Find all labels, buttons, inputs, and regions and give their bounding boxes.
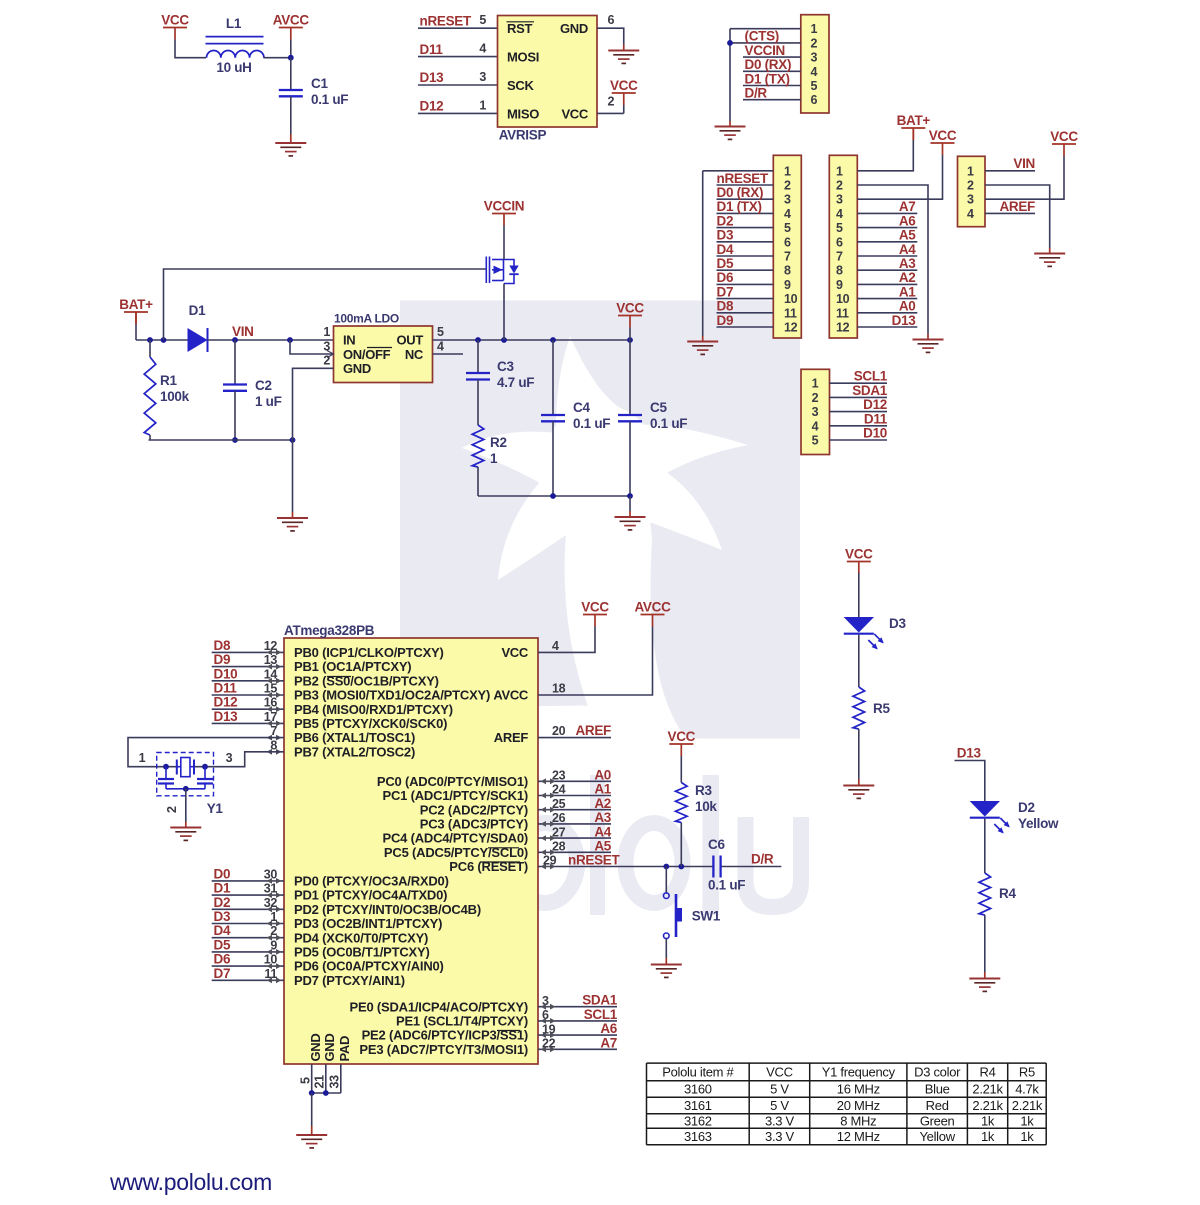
svg-text:VCC: VCC [610, 78, 638, 93]
svg-text:D1: D1 [189, 303, 206, 318]
svg-text:25: 25 [552, 797, 566, 811]
svg-text:PE1 (SCL1/T4/PTCXY): PE1 (SCL1/T4/PTCXY) [396, 1014, 528, 1029]
svg-text:3163: 3163 [684, 1129, 712, 1144]
svg-text:D12: D12 [420, 99, 444, 114]
svg-text:D2: D2 [214, 895, 231, 910]
svg-text:5: 5 [437, 325, 444, 339]
svg-text:Green: Green [920, 1114, 955, 1129]
svg-text:PC2 (ADC2/PTCY): PC2 (ADC2/PTCY) [420, 802, 528, 817]
svg-text:1: 1 [967, 164, 974, 178]
svg-text:PC3 (ADC3/PTCY): PC3 (ADC3/PTCY) [420, 817, 528, 832]
svg-text:VCC: VCC [581, 599, 609, 614]
svg-text:3.3 V: 3.3 V [765, 1129, 794, 1144]
svg-text:4: 4 [784, 207, 791, 221]
svg-text:D13: D13 [957, 746, 982, 761]
svg-text:D0 (RX): D0 (RX) [717, 185, 764, 200]
svg-text:A1: A1 [594, 782, 611, 797]
svg-text:PAD: PAD [337, 1036, 352, 1062]
svg-text:2: 2 [836, 179, 843, 193]
svg-text:C2: C2 [255, 378, 272, 393]
svg-text:PB0 (ICP1/CLKO/PTCXY): PB0 (ICP1/CLKO/PTCXY) [294, 645, 444, 660]
svg-text:11: 11 [836, 306, 849, 320]
svg-text:Y1 frequency: Y1 frequency [822, 1064, 896, 1079]
svg-text:5: 5 [836, 221, 843, 235]
svg-text:nRESET: nRESET [420, 13, 473, 28]
svg-text:D/R: D/R [751, 852, 774, 867]
svg-text:29: 29 [543, 854, 557, 868]
svg-text:4: 4 [437, 339, 444, 353]
svg-text:4: 4 [479, 42, 486, 56]
svg-text:4.7k: 4.7k [1015, 1081, 1039, 1096]
svg-text:8: 8 [784, 264, 791, 278]
svg-text:GND: GND [343, 361, 371, 376]
svg-text:SCK: SCK [507, 78, 534, 93]
svg-text:5: 5 [812, 434, 819, 448]
svg-text:D4: D4 [717, 242, 734, 257]
svg-text:PD2 (PTCXY/INT0/OC3B/OC4B): PD2 (PTCXY/INT0/OC3B/OC4B) [294, 902, 481, 917]
svg-text:R1: R1 [160, 373, 177, 388]
svg-text:(CTS): (CTS) [745, 29, 780, 44]
svg-text:D1 (TX): D1 (TX) [717, 199, 762, 214]
svg-text:D10: D10 [214, 666, 238, 681]
svg-text:D11: D11 [214, 681, 238, 696]
svg-text:RST: RST [507, 21, 532, 36]
svg-text:PD3 (OC2B/INT1/PTCXY): PD3 (OC2B/INT1/PTCXY) [294, 916, 442, 931]
svg-text:3160: 3160 [684, 1081, 712, 1096]
svg-text:A0: A0 [594, 768, 611, 783]
svg-text:VCC: VCC [929, 128, 957, 143]
svg-text:www.pololu.com: www.pololu.com [109, 1169, 272, 1195]
svg-text:VCC: VCC [161, 12, 189, 27]
svg-text:0.1 uF: 0.1 uF [573, 416, 610, 431]
svg-text:5: 5 [479, 13, 486, 27]
svg-text:Pololu item #: Pololu item # [662, 1064, 734, 1079]
svg-text:5: 5 [299, 1077, 313, 1084]
svg-text:Y1: Y1 [207, 801, 224, 816]
svg-text:SCL1: SCL1 [584, 1007, 618, 1022]
svg-text:PB1 (OC1A/PTCXY): PB1 (OC1A/PTCXY) [294, 659, 411, 674]
svg-text:PE3 (ADC7/PTCY/T3/MOSI1): PE3 (ADC7/PTCY/T3/MOSI1) [359, 1042, 528, 1057]
svg-text:28: 28 [552, 840, 566, 854]
svg-text:R2: R2 [490, 435, 507, 450]
svg-text:PC6 (RESET): PC6 (RESET) [449, 859, 528, 874]
svg-text:1: 1 [836, 164, 843, 178]
svg-text:A3: A3 [899, 256, 916, 271]
svg-text:27: 27 [552, 825, 566, 839]
svg-text:3: 3 [812, 405, 819, 419]
svg-text:C5: C5 [650, 400, 667, 415]
svg-text:D1 (TX): D1 (TX) [745, 71, 790, 86]
svg-text:Blue: Blue [925, 1081, 950, 1096]
svg-text:PC1 (ADC1/PTCY/SCK1): PC1 (ADC1/PTCY/SCK1) [382, 788, 528, 803]
svg-text:MISO: MISO [507, 106, 539, 121]
svg-text:16 MHz: 16 MHz [837, 1081, 880, 1096]
svg-text:MOSI: MOSI [507, 50, 539, 65]
svg-text:3162: 3162 [684, 1114, 712, 1129]
svg-text:3: 3 [836, 193, 843, 207]
svg-text:8 MHz: 8 MHz [840, 1114, 876, 1129]
svg-text:1: 1 [139, 751, 146, 765]
svg-text:VCC: VCC [561, 106, 588, 121]
svg-text:PB5 (PTCXY/XCK0/SCK0): PB5 (PTCXY/XCK0/SCK0) [294, 716, 447, 731]
svg-text:1: 1 [490, 451, 498, 466]
svg-text:D3 color: D3 color [914, 1064, 961, 1079]
svg-text:PC4 (ADC4/PTCY/SDA0): PC4 (ADC4/PTCY/SDA0) [382, 831, 528, 846]
svg-text:6: 6 [608, 13, 615, 27]
svg-text:D1: D1 [214, 881, 231, 896]
svg-text:D3: D3 [889, 616, 906, 631]
svg-text:11: 11 [784, 306, 797, 320]
svg-text:AVCC: AVCC [493, 688, 529, 703]
svg-text:2: 2 [812, 391, 819, 405]
svg-text:D2: D2 [1018, 800, 1035, 815]
svg-text:nRESET: nRESET [717, 171, 770, 186]
svg-text:VIN: VIN [1013, 156, 1035, 171]
svg-text:0.1 uF: 0.1 uF [311, 92, 348, 107]
svg-text:GND: GND [308, 1034, 323, 1062]
svg-text:2: 2 [810, 36, 817, 50]
svg-text:AREF: AREF [575, 723, 611, 738]
svg-text:Yellow: Yellow [919, 1129, 955, 1144]
svg-text:6: 6 [836, 235, 843, 249]
svg-text:C6: C6 [708, 837, 725, 852]
svg-text:A2: A2 [594, 796, 611, 811]
svg-text:PB6 (XTAL1/TOSC1): PB6 (XTAL1/TOSC1) [294, 730, 415, 745]
svg-text:R5: R5 [1019, 1064, 1035, 1079]
svg-text:A5: A5 [899, 228, 916, 243]
svg-text:D6: D6 [214, 952, 231, 967]
svg-text:5 V: 5 V [770, 1081, 789, 1096]
svg-text:D3: D3 [717, 228, 734, 243]
svg-text:A6: A6 [899, 213, 916, 228]
svg-text:D7: D7 [214, 966, 231, 981]
svg-text:5: 5 [810, 79, 817, 93]
svg-text:3: 3 [967, 193, 974, 207]
svg-text:ATmega328PB: ATmega328PB [284, 623, 375, 638]
svg-text:1: 1 [784, 164, 791, 178]
svg-text:VCC: VCC [667, 729, 695, 744]
svg-text:R4: R4 [980, 1064, 996, 1079]
svg-text:0.1 uF: 0.1 uF [708, 878, 745, 893]
svg-text:1: 1 [479, 98, 486, 112]
svg-text:12: 12 [836, 321, 850, 335]
svg-text:D5: D5 [214, 937, 231, 952]
svg-text:SCL1: SCL1 [854, 369, 888, 384]
svg-text:33: 33 [328, 1075, 342, 1089]
svg-text:A3: A3 [594, 810, 611, 825]
svg-text:D8: D8 [214, 638, 231, 653]
svg-text:20: 20 [552, 724, 566, 738]
svg-text:BAT+: BAT+ [119, 297, 153, 312]
svg-text:D6: D6 [717, 270, 734, 285]
svg-text:23: 23 [552, 769, 566, 783]
svg-text:1: 1 [323, 325, 330, 339]
svg-text:D3: D3 [214, 909, 231, 924]
svg-text:VCC: VCC [1050, 129, 1078, 144]
svg-text:PB4 (MISO0/RXD1/PTCXY): PB4 (MISO0/RXD1/PTCXY) [294, 702, 453, 717]
svg-text:3161: 3161 [684, 1098, 712, 1113]
svg-text:VCC: VCC [845, 546, 873, 561]
svg-text:12 MHz: 12 MHz [837, 1129, 880, 1144]
svg-text:2: 2 [165, 806, 179, 813]
svg-text:10: 10 [836, 292, 850, 306]
svg-text:OUT: OUT [396, 333, 423, 348]
svg-text:PC0 (ADC0/PTCY/MISO1): PC0 (ADC0/PTCY/MISO1) [377, 774, 528, 789]
svg-text:4: 4 [836, 207, 843, 221]
svg-text:L1: L1 [226, 16, 242, 31]
svg-text:NC: NC [405, 347, 424, 362]
svg-text:4: 4 [552, 639, 559, 653]
svg-text:D7: D7 [717, 284, 734, 299]
svg-text:D11: D11 [420, 42, 444, 57]
svg-text:AVCC: AVCC [273, 12, 310, 27]
svg-text:A4: A4 [594, 824, 611, 839]
svg-text:8: 8 [836, 264, 843, 278]
svg-text:1: 1 [810, 22, 817, 36]
svg-text:3.3 V: 3.3 V [765, 1114, 794, 1129]
svg-text:1k: 1k [1020, 1129, 1034, 1144]
svg-text:4: 4 [810, 65, 817, 79]
svg-text:A1: A1 [899, 284, 916, 299]
svg-text:3: 3 [810, 51, 817, 65]
svg-text:3: 3 [479, 70, 486, 84]
svg-text:1k: 1k [1020, 1114, 1034, 1129]
svg-text:SDA1: SDA1 [582, 993, 618, 1008]
svg-text:1: 1 [812, 377, 819, 391]
svg-text:21: 21 [313, 1075, 327, 1089]
svg-text:ON/OFF: ON/OFF [343, 347, 391, 362]
svg-text:C4: C4 [573, 400, 590, 415]
svg-text:D13: D13 [214, 709, 239, 724]
svg-text:C1: C1 [311, 76, 328, 91]
svg-text:D5: D5 [717, 256, 734, 271]
svg-text:2.21k: 2.21k [972, 1081, 1003, 1096]
svg-text:18: 18 [552, 682, 566, 696]
svg-text:A4: A4 [899, 242, 916, 257]
svg-text:GND: GND [560, 21, 588, 36]
svg-text:VCC: VCC [766, 1064, 793, 1079]
svg-text:3: 3 [784, 193, 791, 207]
svg-text:Red: Red [926, 1098, 949, 1113]
svg-text:9: 9 [836, 278, 843, 292]
svg-text:D0: D0 [214, 866, 231, 881]
svg-text:VCC: VCC [501, 645, 528, 660]
svg-text:6: 6 [784, 235, 791, 249]
svg-text:5 V: 5 V [770, 1098, 789, 1113]
svg-text:R3: R3 [695, 783, 712, 798]
svg-text:5: 5 [784, 221, 791, 235]
svg-text:D9: D9 [717, 313, 734, 328]
svg-text:12: 12 [784, 321, 798, 335]
svg-text:VIN: VIN [232, 324, 254, 339]
svg-text:4: 4 [967, 207, 974, 221]
svg-text:D12: D12 [214, 695, 238, 710]
svg-text:PD4 (XCK0/T0/PTCXY): PD4 (XCK0/T0/PTCXY) [294, 930, 428, 945]
svg-text:D10: D10 [863, 426, 887, 441]
svg-text:D11: D11 [864, 411, 888, 426]
svg-text:GND: GND [322, 1034, 337, 1062]
svg-text:SDA1: SDA1 [852, 383, 888, 398]
svg-text:AREF: AREF [999, 199, 1035, 214]
svg-text:VCC: VCC [616, 300, 644, 315]
svg-text:D9: D9 [214, 652, 231, 667]
svg-text:20 MHz: 20 MHz [837, 1098, 880, 1113]
svg-text:A7: A7 [899, 199, 916, 214]
svg-text:D0 (RX): D0 (RX) [745, 57, 792, 72]
svg-text:C3: C3 [497, 359, 514, 374]
svg-text:D12: D12 [863, 397, 887, 412]
svg-text:R5: R5 [873, 701, 890, 716]
svg-text:PD0 (PTCXY/OC3A/RXD0): PD0 (PTCXY/OC3A/RXD0) [294, 874, 449, 889]
svg-text:7: 7 [836, 250, 843, 264]
svg-text:10k: 10k [695, 799, 717, 814]
svg-text:A6: A6 [600, 1021, 617, 1036]
svg-text:A5: A5 [594, 839, 611, 854]
svg-text:2: 2 [967, 179, 974, 193]
svg-text:2: 2 [608, 95, 615, 109]
svg-text:10: 10 [784, 292, 798, 306]
svg-text:D8: D8 [717, 299, 734, 314]
svg-text:D/R: D/R [745, 86, 768, 101]
svg-text:SW1: SW1 [692, 909, 721, 924]
svg-text:PD1 (PTCXY/OC4A/TXD0): PD1 (PTCXY/OC4A/TXD0) [294, 888, 447, 903]
svg-text:PB2 (SS0/OC1B/PTCXY): PB2 (SS0/OC1B/PTCXY) [294, 673, 439, 688]
svg-text:nRESET: nRESET [568, 853, 621, 868]
svg-text:A0: A0 [899, 299, 916, 314]
svg-text:1k: 1k [981, 1114, 995, 1129]
svg-text:10 uH: 10 uH [216, 60, 251, 75]
svg-text:D4: D4 [214, 923, 231, 938]
svg-text:1 uF: 1 uF [255, 394, 282, 409]
svg-text:D13: D13 [420, 70, 445, 85]
svg-text:2: 2 [784, 179, 791, 193]
svg-text:Yellow: Yellow [1018, 816, 1059, 831]
svg-text:IN: IN [343, 333, 355, 348]
svg-text:PD5 (OC0B/T1/PTCXY): PD5 (OC0B/T1/PTCXY) [294, 945, 430, 960]
svg-text:BAT+: BAT+ [897, 113, 931, 128]
svg-text:4.7 uF: 4.7 uF [497, 375, 534, 390]
svg-text:2.21k: 2.21k [1012, 1098, 1043, 1113]
svg-text:9: 9 [784, 278, 791, 292]
svg-text:100k: 100k [160, 389, 190, 404]
svg-text:24: 24 [552, 783, 566, 797]
svg-text:2.21k: 2.21k [972, 1098, 1003, 1113]
svg-text:100mA LDO: 100mA LDO [334, 312, 399, 326]
svg-text:VCCIN: VCCIN [484, 198, 525, 213]
svg-text:PD7 (PTCXY/AIN1): PD7 (PTCXY/AIN1) [294, 973, 405, 988]
svg-text:PC5 (ADC5/PTCY/SCL0): PC5 (ADC5/PTCY/SCL0) [384, 845, 528, 860]
svg-text:1k: 1k [981, 1129, 995, 1144]
svg-text:D2: D2 [717, 213, 734, 228]
svg-text:26: 26 [552, 811, 566, 825]
svg-text:4: 4 [812, 419, 819, 433]
svg-text:D13: D13 [892, 313, 917, 328]
svg-text:PD6 (OC0A/PTCXY/AIN0): PD6 (OC0A/PTCXY/AIN0) [294, 959, 444, 974]
svg-text:AVCC: AVCC [634, 599, 671, 614]
svg-text:VCCIN: VCCIN [745, 43, 786, 58]
svg-text:AVRISP: AVRISP [499, 128, 547, 143]
svg-text:AREF: AREF [494, 730, 529, 745]
svg-text:3: 3 [226, 751, 233, 765]
svg-text:A2: A2 [899, 270, 916, 285]
svg-text:PB3 (MOSI0/TXD1/OC2A/PTCXY): PB3 (MOSI0/TXD1/OC2A/PTCXY) [294, 688, 490, 703]
svg-text:PB7 (XTAL2/TOSC2): PB7 (XTAL2/TOSC2) [294, 744, 415, 759]
svg-text:R4: R4 [999, 886, 1016, 901]
svg-text:PE0 (SDA1/ICP4/ACO/PTCXY): PE0 (SDA1/ICP4/ACO/PTCXY) [350, 999, 529, 1014]
svg-text:7: 7 [784, 250, 791, 264]
svg-text:6: 6 [810, 93, 817, 107]
svg-text:A7: A7 [600, 1035, 617, 1050]
svg-text:0.1 uF: 0.1 uF [650, 416, 687, 431]
